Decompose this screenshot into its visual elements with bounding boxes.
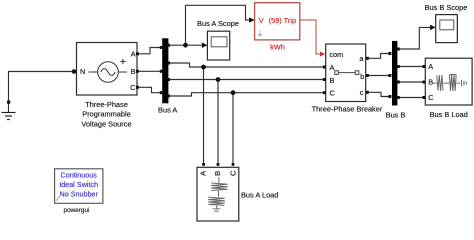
svg-text:Bus B: Bus B: [386, 110, 406, 119]
svg-text:N: N: [80, 67, 85, 76]
svg-text:Voltage Source: Voltage Source: [81, 119, 131, 128]
svg-text:Bus A: Bus A: [158, 105, 177, 114]
svg-text:A: A: [330, 63, 335, 72]
svg-text:kWh: kWh: [270, 43, 285, 52]
svg-text:No Snubber: No Snubber: [60, 189, 99, 198]
svg-text:B: B: [213, 171, 222, 176]
svg-text:C: C: [130, 83, 136, 92]
svg-text:Bus B Scope: Bus B Scope: [425, 3, 468, 12]
svg-text:B: B: [131, 67, 136, 76]
svg-text:(59) Trip: (59) Trip: [269, 16, 297, 25]
svg-text:Bus B Load: Bus B Load: [430, 110, 468, 119]
svg-text:C: C: [330, 89, 336, 98]
svg-text:C: C: [428, 93, 434, 102]
svg-text:A: A: [428, 62, 433, 71]
svg-text:Continuous: Continuous: [61, 171, 98, 180]
svg-text:A: A: [131, 49, 136, 58]
svg-text:Programmable: Programmable: [82, 110, 130, 119]
svg-text:powergui: powergui: [64, 207, 90, 214]
svg-text:V: V: [259, 16, 264, 25]
svg-text:com: com: [330, 50, 344, 59]
svg-text:Ideal Switch: Ideal Switch: [59, 180, 98, 189]
svg-text:B: B: [428, 78, 433, 87]
svg-text:Three-Phase: Three-Phase: [85, 100, 128, 109]
svg-text:C: C: [229, 170, 238, 176]
svg-text:Bus A Scope: Bus A Scope: [197, 19, 239, 28]
svg-text:Bus A Load: Bus A Load: [241, 191, 278, 200]
svg-text:B: B: [330, 76, 335, 85]
svg-text:c: c: [360, 88, 364, 97]
svg-text:Three-Phase Breaker: Three-Phase Breaker: [312, 104, 383, 113]
svg-text:b: b: [360, 72, 364, 81]
